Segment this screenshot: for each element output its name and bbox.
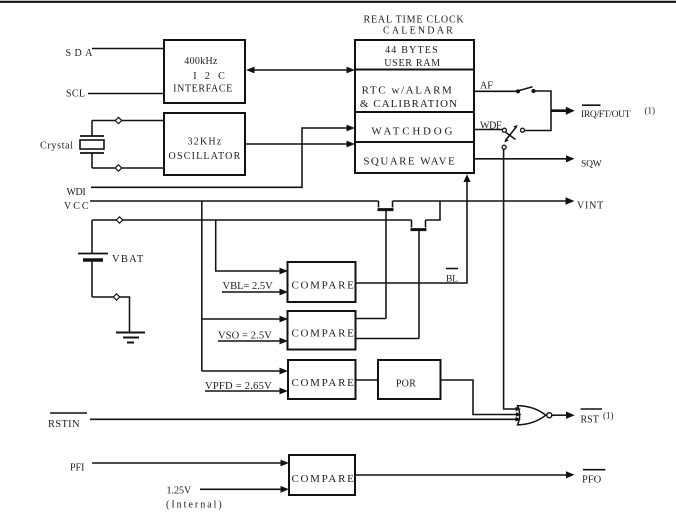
svg-text:VBL= 2.5V: VBL= 2.5V [223,281,274,292]
transistor Q1 (VCC switch) [378,201,394,319]
wire battery rail [92,201,440,220]
svg-text:IRQ/FT/OUT: IRQ/FT/OUT [581,110,631,120]
svg-text:WDI: WDI [67,187,86,198]
svg-text:SQUARE WAVE: SQUARE WAVE [363,156,456,168]
wire VBL ref input [222,289,288,296]
label SQW [581,160,602,170]
note (1) [603,410,614,420]
battery VBAT [78,220,108,297]
label VINT [577,201,604,212]
wire VSO ref input [218,338,288,345]
label IRQ/FT/OUT [581,105,631,120]
svg-text:OSCILLATOR: OSCILLATOR [169,151,242,162]
svg-text:44 BYTES: 44 BYTES [385,45,439,56]
label SCL [66,88,85,99]
label VCC [64,201,91,212]
wire I2C to RTC bidirectional bus [246,67,355,74]
label VSO = 2.5V [218,330,272,341]
label RSTIN [48,413,87,430]
wire PFI to compare [92,460,289,467]
label Crystal [40,140,74,151]
wire battery sense to VBL compare [216,220,288,274]
crystal X1 [80,121,104,169]
svg-text:AF: AF [480,80,493,91]
RTC main block (44 bytes / RTC alarm / watchdog / square wave) [355,40,474,173]
label PFI [70,462,84,473]
svg-text:COMPARE: COMPARE [291,279,355,291]
svg-text:BL: BL [446,274,458,284]
wire SDA to I2C [92,48,164,50]
top frame line [0,1,676,3]
wire PFO output [355,471,575,478]
note (1) [645,105,656,115]
wire WDF to switch [474,129,502,131]
node diamond battery bottom [113,294,119,300]
svg-text:RST: RST [581,414,599,425]
svg-text:SCL: SCL [66,88,85,99]
wire SCL to I2C [88,93,164,95]
wire VCC sense bus down to compares [202,201,288,374]
I2C interface block U1 [164,40,245,103]
wire IRQ output [551,107,575,115]
svg-text:REAL TIME CLOCK: REAL TIME CLOCK [364,15,465,26]
svg-text:VBAT: VBAT [112,254,145,265]
svg-text:CALENDAR: CALENDAR [383,26,455,37]
svg-text:(1): (1) [603,410,614,420]
svg-text:RTC w/ALARM: RTC w/ALARM [362,85,454,97]
ground [116,333,145,343]
switch S1 (AF) [516,87,536,94]
wire 1.25V ref input [200,486,289,493]
svg-text:USER RAM: USER RAM [384,58,440,69]
wire RSTIN to gate [90,418,516,420]
node diamond crystal bottom [115,165,121,171]
svg-text:Crystal: Crystal [40,140,74,151]
label WDI [67,187,86,198]
wire battery to ground [92,297,130,332]
svg-text:WATCHDOG: WATCHDOG [371,125,455,137]
svg-text:RSTIN: RSTIN [48,419,80,430]
wire AF to switch [474,90,516,92]
wire SQW output [474,155,575,162]
wire RST output [552,412,575,419]
label PFO [582,470,605,486]
node diamond battery top [116,217,122,223]
POR block [378,360,441,399]
svg-text:COMPARE: COMPARE [291,377,355,389]
transistor Q2 (battery switch) [411,220,427,339]
svg-text:INTERFACE: INTERFACE [173,84,233,95]
svg-text:POR: POR [396,378,416,389]
label RST [581,409,603,425]
wire oscillator to RTC [245,141,355,148]
wire compare to POR [356,379,379,381]
wire POR to RST gate [441,380,517,415]
wire WDF/SQW to RST gate [504,149,516,409]
svg-text:SDA: SDA [66,48,97,59]
svg-text:VINT: VINT [577,201,604,212]
svg-text:(Internal): (Internal) [166,500,224,511]
svg-text:SQW: SQW [581,160,602,170]
svg-text:& CALIBRATION: & CALIBRATION [360,98,458,110]
wire Q1 gate to compare VSO output upper [356,318,386,320]
compare block VSO [288,311,356,350]
label AF [480,80,493,91]
wire crystal bottom to oscillator [92,167,164,169]
title REAL TIME CLOCK CALENDAR [364,15,465,37]
label (Internal) [166,500,224,511]
svg-text:PFI: PFI [70,462,84,473]
wire crystal top to oscillator [92,120,164,122]
wire BL flag to RTC [356,174,471,283]
svg-text:PFO: PFO [582,474,602,485]
svg-text:VSO = 2.5V: VSO = 2.5V [218,330,272,341]
node diamond crystal top [115,117,121,123]
svg-text:(1): (1) [645,105,656,115]
compare block PFI [289,455,356,495]
label 1.25V [167,486,193,497]
svg-text:COMPARE: COMPARE [291,473,355,485]
label BL (battery low) [446,269,458,285]
wire AF switch to IRQ bus [525,91,552,131]
label WDF [480,120,502,131]
svg-text:1.25V: 1.25V [167,486,193,497]
oscillator block [164,113,245,175]
svg-text:32KHz: 32KHz [188,137,223,148]
label VPFD = 2.65V [205,381,272,392]
svg-text:VCC: VCC [64,201,91,212]
wire WDI to watchdog [91,125,355,188]
svg-text:I 2 C: I 2 C [193,71,228,82]
label VBL = 2.5V [223,281,274,292]
wire Q2 gate to compare VSO output [356,338,419,340]
nor gate RST [516,406,552,425]
switch S2 (WDF / SQW select) [502,125,524,149]
wire VCC rail to VINT [90,197,575,205]
wire VPFD ref input [205,388,288,395]
compare block VBL [288,262,356,302]
label SDA [66,48,97,59]
compare block VPFD [288,360,356,399]
svg-text:400kHz: 400kHz [184,56,218,67]
label VBAT [112,254,145,265]
svg-text:COMPARE: COMPARE [291,328,355,340]
